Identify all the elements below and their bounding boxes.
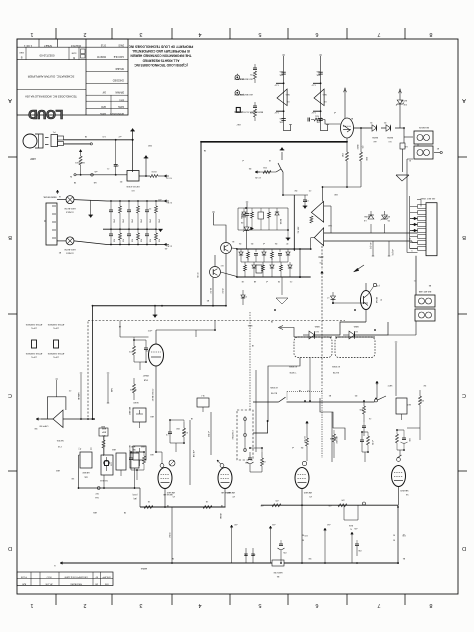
svg-text:5.1V: 5.1V	[311, 83, 316, 85]
pot HB3	[79, 452, 93, 488]
fuse F3	[272, 560, 284, 577]
svg-text:D6: D6	[275, 242, 277, 244]
wire	[299, 249, 301, 278]
svg-text:x5: x5	[292, 446, 294, 448]
misc value labels	[34, 111, 439, 560]
svg-text:AMB: AMB	[101, 427, 106, 430]
svg-text:JP05: JP05	[112, 219, 114, 223]
svg-text:x2: x2	[266, 280, 268, 282]
wire	[321, 246, 340, 303]
svg-text:KEY: KEY	[236, 123, 241, 125]
wire	[63, 418, 93, 420]
wire	[156, 321, 215, 338]
resistor R85	[303, 421, 309, 461]
wire	[132, 140, 134, 172]
resistor R21	[209, 288, 223, 294]
resistor R55	[288, 262, 292, 277]
wire stair	[320, 398, 345, 440]
wire	[250, 448, 262, 472]
resistor R90	[359, 401, 366, 422]
svg-text:8: 8	[429, 31, 432, 37]
pot HB4	[112, 448, 126, 476]
stub x13	[388, 241, 393, 256]
svg-text:CAC: CAC	[83, 476, 88, 479]
wire	[79, 488, 141, 507]
ground	[153, 306, 158, 318]
wire dashed	[321, 276, 323, 386]
diode D23	[262, 249, 266, 262]
svg-text:R03: R03	[139, 239, 141, 242]
wire	[283, 188, 308, 195]
svg-text:SET2: SET2	[388, 384, 393, 386]
grid terminal V3	[302, 461, 306, 465]
svg-text:0032715: 0032715	[96, 55, 106, 57]
triac V6	[341, 118, 364, 150]
supply arrows mid	[230, 525, 353, 563]
svg-text:5C1 9C2: 5C1 9C2	[303, 436, 305, 443]
svg-text:BKGA: BKGA	[375, 297, 378, 303]
capacitor C31	[303, 195, 309, 209]
variable marker	[169, 460, 175, 466]
svg-text:D2: D2	[384, 121, 386, 123]
wire	[238, 208, 288, 230]
svg-text:F1: F1	[409, 159, 411, 161]
tube V3	[295, 468, 312, 506]
wire	[407, 190, 418, 253]
resistor R45	[278, 249, 282, 262]
svg-text:B3: B3	[329, 394, 331, 396]
jumper J10 ATTEN	[25, 323, 42, 358]
wire	[332, 412, 338, 462]
terminal	[95, 487, 101, 499]
svg-text:HERL 9M: HERL 9M	[273, 571, 282, 573]
resistor R95	[144, 500, 153, 509]
label	[132, 493, 137, 500]
svg-text:1W: 1W	[423, 384, 426, 386]
fuse HS2	[57, 237, 107, 254]
wire	[92, 306, 94, 420]
svg-text:J4: J4	[59, 195, 61, 197]
svg-text:x2 2B3: x2 2B3	[207, 431, 209, 437]
wire	[309, 358, 311, 402]
transistor Q4	[361, 283, 382, 322]
svg-text:+B2: +B2	[234, 523, 237, 525]
svg-text:1B5: 1B5	[317, 70, 320, 72]
capacitor C114	[137, 201, 142, 245]
resistor R86	[362, 432, 373, 462]
svg-text:MC33L: MC33L	[56, 439, 64, 441]
ground	[144, 155, 149, 166]
wire	[170, 420, 184, 452]
wire	[381, 127, 386, 129]
resistor R41	[247, 249, 250, 262]
svg-text:PROPERTY OF LOUD TECHNOLOGIES: PROPERTY OF LOUD TECHNOLOGIES INC	[128, 45, 193, 49]
capacitor C116	[155, 201, 160, 245]
capacitor C113	[127, 201, 132, 245]
svg-text:C7: C7	[307, 389, 309, 391]
tube V4	[392, 466, 409, 506]
svg-text:7: 7	[377, 31, 380, 37]
box R60	[256, 265, 262, 273]
svg-text:x45: x45	[94, 170, 97, 172]
svg-text:2C 2B: 2C 2B	[196, 272, 198, 278]
resistor R101	[74, 150, 85, 175]
svg-text:CHFP 9M: CHFP 9M	[39, 425, 48, 427]
capacitor C21	[249, 64, 257, 83]
svg-text:x1B 2LB: x1B 2LB	[192, 450, 194, 458]
svg-text:CHECKED: CHECKED	[112, 79, 124, 81]
svg-text:B: B	[73, 56, 75, 60]
svg-text:GB1: GB1	[150, 453, 154, 455]
svg-text:DWG: DWG	[118, 44, 124, 46]
svg-text:JP05: JP05	[148, 219, 150, 223]
svg-text:3: 3	[139, 31, 142, 37]
svg-text:C2: C2	[69, 389, 71, 391]
pot HB5	[130, 448, 139, 488]
svg-text:R42: R42	[341, 154, 343, 157]
svg-text:JP05: JP05	[139, 219, 141, 223]
stub SEND	[107, 373, 113, 403]
op-amp U2B	[311, 55, 329, 131]
svg-text:2AWL: 2AWL	[352, 325, 358, 328]
wire	[76, 174, 127, 176]
svg-text:BLM: BLM	[349, 524, 353, 526]
svg-text:JP05: JP05	[130, 219, 132, 223]
svg-text:C: C	[8, 392, 12, 398]
svg-text:R03: R03	[157, 239, 159, 242]
capacitor C97	[244, 548, 248, 563]
diode D31	[326, 292, 368, 304]
wire	[324, 232, 418, 234]
svg-text:1B5: 1B5	[280, 117, 283, 119]
jumper J11 ATTEN	[47, 323, 64, 358]
svg-text:D4: D4	[239, 242, 241, 244]
svg-text:4: 4	[198, 602, 201, 608]
svg-text:FOOTSW: FOOTSW	[231, 431, 233, 440]
svg-text:A7-106: A7-106	[45, 582, 53, 585]
svg-text:J ]: J ]	[78, 447, 81, 450]
wire bottom bus	[60, 505, 398, 563]
svg-text:x15 (C2): x15 (C2)	[369, 243, 371, 250]
terminal arrow	[164, 175, 172, 179]
svg-text:JP05: JP05	[121, 219, 123, 223]
grid terminal V2	[217, 460, 224, 467]
wire dotted	[321, 388, 323, 458]
svg-text:5.1V: 5.1V	[274, 83, 279, 85]
resistor R87	[396, 430, 399, 450]
labels	[163, 491, 231, 496]
svg-text:(OPT): (OPT)	[53, 327, 59, 329]
svg-text:BLVTB: BLVTB	[270, 392, 277, 394]
diode D1	[371, 125, 378, 142]
signal arrows into J5	[410, 217, 417, 232]
relay box K3 KEYCLICK	[126, 171, 139, 192]
svg-text:6: 6	[315, 31, 318, 37]
svg-text:(1W2): (1W2)	[132, 493, 137, 495]
op-amp U2A	[274, 55, 292, 131]
connector P1	[51, 131, 64, 147]
wire	[399, 112, 401, 128]
svg-text:2C/A2: 2C/A2	[168, 532, 171, 537]
svg-text:2B2: 2B2	[176, 427, 179, 429]
svg-text:R03: R03	[121, 239, 123, 242]
relay K1	[288, 325, 332, 373]
capacitor C86	[397, 430, 410, 456]
svg-text:(C)2008 LOUD TECHNOLOGIES INC: (C)2008 LOUD TECHNOLOGIES INC	[134, 63, 188, 67]
diode D13	[240, 208, 246, 230]
svg-text:5: 5	[258, 31, 261, 37]
ground	[396, 175, 409, 181]
svg-text:(OPT): (OPT)	[31, 327, 37, 329]
svg-text:2: 2	[83, 602, 86, 608]
svg-text:DRAWN: DRAWN	[115, 91, 124, 94]
zener D11	[240, 202, 253, 249]
resistor R97	[272, 499, 281, 507]
diode D4	[363, 211, 374, 233]
svg-text:42 F5B5: 42 F5B5	[269, 386, 277, 388]
svg-text:AMP: AMP	[101, 431, 106, 434]
relay K2	[331, 325, 375, 373]
capacitor C85	[360, 432, 364, 452]
wire	[213, 254, 226, 306]
terminal	[91, 170, 98, 176]
svg-text:(OPT): (OPT)	[31, 356, 37, 358]
svg-text:BKLMP45: BKLMP45	[418, 126, 429, 128]
svg-text:B5: B5	[351, 117, 353, 119]
svg-text:x2C2: x2C2	[148, 329, 152, 331]
terminal +15V	[164, 200, 172, 205]
svg-text:(S-M2): (S-M2)	[237, 78, 243, 80]
tube V5	[142, 330, 164, 452]
svg-text:7: 7	[377, 602, 380, 608]
svg-text:A: A	[8, 97, 12, 103]
capacitor C95	[278, 540, 285, 563]
svg-text:45 5C: 45 5C	[221, 288, 223, 294]
wire	[134, 337, 146, 370]
svg-text:HB4: HB4	[112, 448, 116, 450]
svg-text:0032715-00: 0032715-00	[39, 54, 54, 58]
wire dashed return	[87, 322, 89, 420]
potentiometer VR1	[128, 407, 146, 428]
legend chassis ground symbol	[233, 89, 252, 96]
wire	[207, 412, 211, 455]
svg-text:TECHNOLOGIES INC. WOODINVILLE: TECHNOLOGIES INC. WOODINVILLE WA USA	[25, 95, 77, 98]
wire	[253, 420, 268, 433]
wire	[236, 249, 238, 277]
terminal arrow GND	[354, 265, 365, 272]
tube V2	[218, 468, 235, 508]
svg-text:(OPT): (OPT)	[53, 356, 59, 358]
svg-text:3: 3	[139, 602, 142, 608]
svg-text:2C0: 2C0	[304, 534, 307, 536]
tube V1	[158, 468, 175, 508]
wire dashed bus	[88, 320, 345, 322]
svg-text:2C0: 2C0	[402, 534, 405, 536]
op-amp U4	[47, 379, 66, 447]
svg-text:BK/ML: BK/ML	[371, 136, 378, 138]
grid terminal V1	[156, 420, 164, 467]
svg-text:IS PROPRIETARY AND CONFIDENTIA: IS PROPRIETARY AND CONFIDENTIAL	[132, 49, 190, 53]
proprietary notice text	[128, 45, 193, 67]
capacitor C96	[355, 540, 359, 556]
svg-text:ATTEN JUMPERS: ATTEN JUMPERS	[47, 352, 64, 355]
svg-text:B8: B8	[429, 284, 431, 286]
resistor R54	[280, 262, 283, 277]
svg-text:ATTEN JUMPERS: ATTEN JUMPERS	[25, 323, 42, 326]
star note	[402, 533, 405, 535]
wire bus D1	[237, 248, 311, 250]
svg-text:R6: R6	[301, 446, 303, 448]
svg-text:HB3: HB3	[56, 469, 60, 471]
svg-text:C2W: C2W	[110, 462, 112, 466]
svg-text:1B5: 1B5	[280, 70, 283, 72]
resistor R52	[262, 262, 265, 277]
fuse HS1	[57, 196, 107, 214]
svg-text:BKLMP LMB: BKLMP LMB	[418, 290, 431, 292]
svg-text:(A2): (A2)	[133, 497, 137, 500]
svg-text:x47: x47	[118, 135, 121, 137]
svg-text:R9: R9	[355, 394, 357, 396]
svg-text:R03: R03	[112, 239, 114, 242]
svg-text:SCHEMATIC, GUITAR AMPLIFIER: SCHEMATIC, GUITAR AMPLIFIER	[27, 75, 75, 79]
resistor R81	[261, 452, 266, 472]
svg-text:9: 9	[411, 249, 412, 251]
svg-text:J45 KEY 12AN: J45 KEY 12AN	[420, 197, 435, 200]
svg-text:B: B	[462, 234, 466, 240]
svg-text:REV: REV	[19, 51, 24, 53]
diode D14	[275, 208, 281, 230]
svg-text:2M2: 2M2	[148, 144, 152, 146]
legend signal ground symbol	[233, 108, 263, 126]
fuse F2	[400, 143, 408, 172]
svg-text:BK/ML: BK/ML	[386, 136, 393, 138]
box R33	[258, 208, 264, 230]
svg-text:-B1: -B1	[165, 247, 168, 249]
diode D26	[286, 249, 290, 262]
svg-text:APR: APR	[101, 105, 106, 108]
title block	[17, 39, 128, 122]
svg-text:A: A	[462, 97, 466, 103]
svg-text:XB AB: XB AB	[219, 513, 222, 519]
bus hanging box	[344, 505, 358, 529]
svg-text:R7: R7	[286, 242, 288, 244]
svg-text:42 F5B5: 42 F5B5	[331, 365, 340, 367]
svg-text:2: 2	[83, 31, 86, 37]
svg-text:LOUD: LOUD	[28, 107, 63, 122]
wire	[395, 342, 397, 396]
svg-text:KEYCLICK/B: KEYCLICK/B	[126, 185, 139, 187]
wire bus D2	[237, 276, 311, 278]
resistor R72	[182, 422, 188, 443]
resistor R44	[271, 249, 274, 262]
capacitor C101	[113, 140, 119, 175]
transistor Q2	[210, 255, 238, 278]
output terminal	[36, 418, 53, 427]
wire	[344, 88, 347, 118]
svg-text:D5: D5	[388, 219, 390, 221]
wire	[139, 175, 150, 177]
wire	[354, 127, 373, 129]
svg-text:C5: C5	[290, 280, 292, 282]
svg-text:1M: 1M	[82, 161, 85, 163]
svg-text:CONN A: CONN A	[66, 211, 74, 214]
revision table	[17, 572, 113, 586]
svg-text:R03: R03	[130, 239, 132, 242]
op-amp U3B	[310, 216, 324, 249]
svg-text:[ ]: [ ]	[90, 447, 92, 450]
svg-text:C4: C4	[369, 417, 371, 419]
label	[151, 272, 198, 401]
wire	[286, 208, 291, 241]
svg-text:+B4: +B4	[327, 523, 330, 525]
stub x15	[369, 241, 374, 256]
svg-text:SLMR2: SLMR2	[129, 388, 137, 390]
wire	[270, 320, 294, 337]
wire	[168, 507, 172, 563]
svg-text:VALVE HB: VALVE HB	[221, 491, 231, 494]
resistor R42	[341, 138, 349, 187]
transistor Q1	[212, 212, 237, 254]
svg-text:R2: R2	[120, 180, 122, 182]
svg-text:AMP: AMP	[30, 157, 36, 161]
svg-text:A2K: A2K	[21, 582, 26, 585]
capacitor C81 polarized	[244, 452, 253, 472]
svg-text:D: D	[462, 545, 466, 551]
svg-text:BK/ML: BK/ML	[279, 219, 281, 224]
svg-text:B: B	[8, 234, 12, 240]
carbon comp box	[100, 427, 113, 488]
svg-text:(C2): (C2)	[376, 284, 380, 286]
resistor R43	[360, 128, 368, 187]
terminal arrow	[53, 562, 65, 566]
svg-text:B9: B9	[207, 299, 209, 301]
svg-text:(J-M2): (J-M2)	[238, 93, 244, 95]
svg-text:E2: E2	[437, 147, 439, 149]
svg-text:2M: 2M	[252, 553, 255, 555]
diode D2	[386, 125, 393, 142]
svg-text:+B1: +B1	[158, 198, 161, 200]
svg-text:9LJ: 9LJ	[201, 394, 204, 396]
svg-text:C96: C96	[358, 549, 361, 551]
terminal block TB1	[415, 290, 435, 321]
connector J4 MAIN/MEDIA	[43, 190, 59, 245]
resistor R51	[252, 262, 256, 277]
terminal	[368, 283, 380, 294]
jumper glyphs	[78, 447, 92, 450]
svg-text:DATE: DATE	[100, 112, 106, 115]
terminal -15V	[164, 243, 172, 248]
svg-text:EL 5C: EL 5C	[209, 288, 211, 294]
ground	[156, 229, 163, 232]
svg-text:ATTEN JUMPERS: ATTEN JUMPERS	[47, 323, 64, 326]
svg-text:ENG: ENG	[119, 98, 124, 100]
svg-text:ISSUED: ISSUED	[115, 67, 124, 69]
svg-text:x13 (C2): x13 (C2)	[391, 249, 393, 256]
capacitor C98	[251, 548, 255, 563]
svg-text:VALVE/9: VALVE/9	[303, 491, 312, 494]
wire	[64, 143, 93, 145]
svg-text:ATTEN JUMPERS: ATTEN JUMPERS	[25, 352, 42, 355]
svg-text:HB5: HB5	[93, 511, 97, 513]
svg-text:ECO: ECO	[46, 576, 51, 578]
wire bottom power bus	[93, 305, 227, 307]
footswitch FS1	[231, 312, 253, 460]
wire	[376, 381, 379, 399]
svg-text:P1-08: P1-08	[20, 576, 27, 578]
svg-text:2W: 2W	[294, 189, 297, 191]
svg-text:6: 6	[315, 602, 318, 608]
svg-text:AB WB2: AB WB2	[335, 436, 338, 443]
